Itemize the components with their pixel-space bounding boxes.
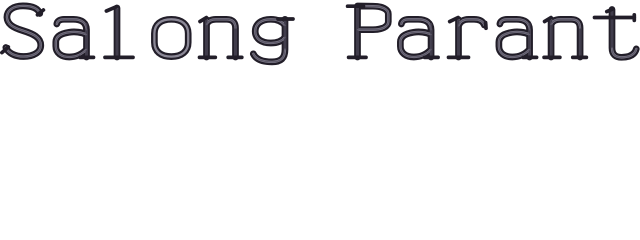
wordmark Salong Parant bbox=[0, 0, 640, 69]
letter a (2nd) bbox=[400, 19, 438, 57]
letter g bbox=[253, 19, 293, 62]
letter n (1st) bbox=[200, 18, 242, 58]
letter l bbox=[105, 7, 133, 58]
letter o bbox=[154, 19, 188, 56]
letter n (2nd) bbox=[544, 18, 586, 58]
letter a (1st) bbox=[56, 19, 94, 57]
letter P bbox=[348, 6, 389, 57]
letter r bbox=[449, 18, 487, 58]
letter t bbox=[595, 9, 637, 57]
letter S bbox=[2, 6, 44, 57]
letter a (3rd) bbox=[499, 19, 537, 57]
